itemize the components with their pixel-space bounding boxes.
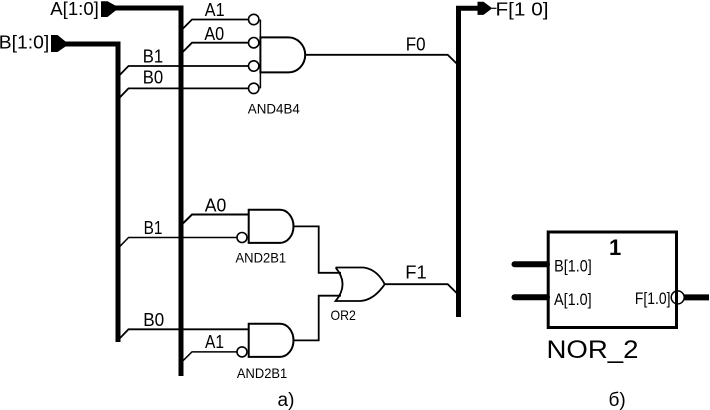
bus B (B[1:0]) [64, 44, 118, 342]
NOR_2 output bubble [671, 291, 684, 304]
wire A0 (tap from bus A to upper AND2B1 pin 1) [182, 215, 249, 225]
svg-text:A[1.0]: A[1.0] [554, 290, 592, 309]
svg-text:B[1.0]: B[1.0] [554, 256, 592, 275]
NOR_2 body rectangle [548, 232, 676, 328]
svg-text:F[1 0]: F[1 0] [496, 0, 549, 20]
svg-text:B1: B1 [143, 47, 163, 67]
NOR_2 input stub B[1.0] [515, 261, 548, 267]
wire B0 (tap from bus B to lower AND2B1 pin 1) [119, 329, 249, 339]
wire A1 (tap from bus A to AND4B4 pin 1) [182, 20, 249, 30]
wire F0 (AND4B4 output to bus F) [305, 55, 457, 64]
AND4B4 input bubble pin4 [249, 83, 259, 93]
output port F stub line [492, 7, 497, 9]
component NOR_2 block symbol [515, 232, 710, 364]
AND2B1 upper body [249, 210, 294, 243]
gate AND4B4 U1 [248, 14, 305, 116]
input port A [101, 1, 116, 17]
AND4B4 input connector line [259, 20, 261, 89]
svg-text:A1: A1 [205, 0, 225, 20]
wire A1 (tap from bus A to lower AND2B1 pin 2 bubble) [182, 352, 237, 362]
wire F1 (OR2 output to bus F) [385, 284, 457, 293]
svg-text:F[1.0]: F[1.0] [635, 289, 671, 308]
svg-text:OR2: OR2 [331, 307, 357, 323]
NOR_2 input stub A[1.0] [515, 294, 548, 300]
svg-text:NOR_2: NOR_2 [547, 336, 639, 364]
svg-text:1: 1 [609, 235, 621, 260]
AND2B1 lower body [249, 324, 294, 357]
svg-text:а): а) [278, 390, 295, 410]
wire net1 (upper AND2B1 output to OR2 input 1) [294, 226, 341, 272]
svg-text:F0: F0 [406, 35, 426, 55]
svg-text:AND4B4: AND4B4 [248, 101, 300, 116]
AND4B4 input bubble pin3 [249, 61, 259, 71]
svg-text:AND2B1: AND2B1 [236, 250, 287, 266]
svg-text:A[1:0]: A[1:0] [50, 0, 99, 19]
input port B [51, 35, 66, 52]
svg-text:A1: A1 [205, 332, 224, 352]
bus F (F[1:0]) [459, 8, 478, 317]
gate OR2 U4 [331, 268, 385, 323]
svg-text:B0: B0 [143, 68, 163, 88]
gate AND2B1 upper U2 [236, 210, 294, 266]
NOR_2 output stub F[1.0] [684, 294, 709, 300]
svg-text:B[1:0]: B[1:0] [0, 33, 49, 53]
svg-text:B1: B1 [144, 218, 163, 238]
svg-text:б): б) [609, 390, 626, 410]
svg-text:F1: F1 [405, 262, 427, 282]
svg-text:A0: A0 [204, 24, 224, 44]
wire A0 (tap from bus A to AND4B4 pin 2) [182, 43, 249, 53]
AND4B4 input bubble pin2 [249, 38, 259, 48]
wire B1 (tap from bus B to upper AND2B1 pin 2 bubble) [119, 238, 237, 248]
svg-text:B0: B0 [143, 310, 164, 330]
OR2 body [336, 268, 385, 302]
AND4B4 input bubble pin1 [249, 14, 259, 24]
svg-text:A0: A0 [205, 195, 227, 215]
gate AND2B1 lower U3 [237, 324, 294, 381]
bus A (A[1:0]) [114, 8, 181, 376]
AND4B4 body [260, 37, 305, 72]
wire B0 (tap from bus B to AND4B4 pin 4) [119, 88, 249, 98]
AND2B1 upper input bubble [237, 233, 247, 243]
wire net2 (lower AND2B1 output to OR2 input 2) [294, 296, 341, 341]
AND2B1 lower input bubble [237, 347, 247, 357]
output port F [478, 2, 493, 15]
wire B1 (tap from bus B to AND4B4 pin 3) [119, 66, 249, 76]
svg-text:AND2B1: AND2B1 [237, 365, 287, 381]
